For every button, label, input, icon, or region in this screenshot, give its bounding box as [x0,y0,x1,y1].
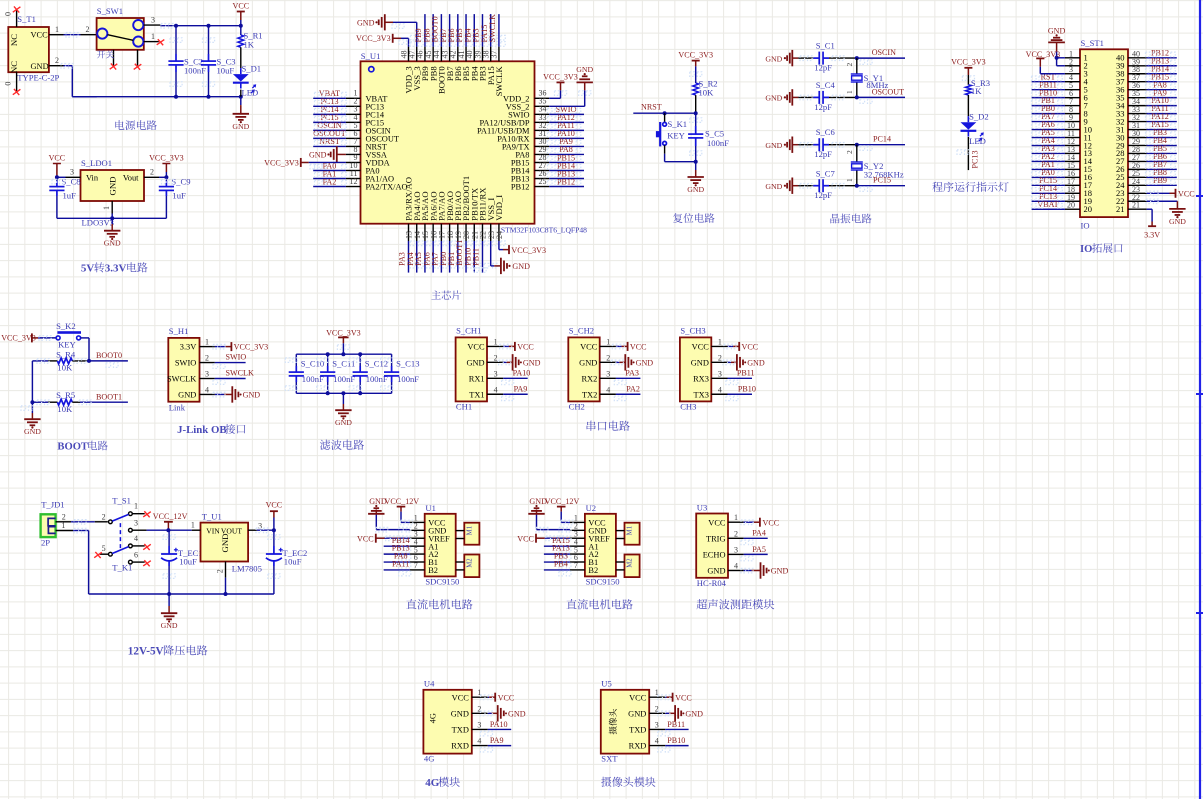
svg-text:GND: GND [765,182,782,191]
svg-text:S_D1: S_D1 [242,64,262,74]
title 主芯片 [431,290,461,299]
svg-text:KEY: KEY [58,340,76,350]
key switch S_K2 KEY [56,321,89,361]
LED S_D2 [961,111,989,146]
svg-text:3: 3 [134,519,138,528]
resistor S_R1 1K [238,26,263,68]
ground GND filter [335,393,352,427]
svg-text:4G: 4G [425,777,440,789]
connector S_H1 J-Link [167,326,215,413]
svg-text:U4: U4 [424,679,435,689]
svg-text:T_JD1: T_JD1 [41,500,64,510]
svg-text:2: 2 [62,512,66,521]
ground GND power circuit [232,97,249,131]
svg-text:PA4: PA4 [752,529,766,538]
regulator T_U1 LM7805 [191,512,262,578]
toggle switch T_K1 lower [100,534,145,573]
title 电源电路 [115,120,157,130]
svg-text:VCC: VCC [692,343,710,352]
svg-text:M2: M2 [467,558,474,568]
svg-text:PB4: PB4 [554,560,568,569]
crystal circuit row OSCIN : capacitor S_C1 12pF [765,50,798,66]
svg-text:PB11: PB11 [667,720,685,729]
svg-text:PA10: PA10 [513,369,531,378]
svg-text:VCC_3V3: VCC_3V3 [234,343,269,352]
svg-text:B2: B2 [588,566,598,575]
svg-text:3: 3 [205,370,209,379]
svg-text:PA11: PA11 [392,560,409,569]
title 直流电机电路 (right) [566,599,632,609]
svg-text:TX1: TX1 [469,390,484,399]
filter top rail [296,353,391,355]
connector S_CH3 [680,326,728,412]
motor connector M1 of U2 [616,523,640,545]
U4 pin2 GND [480,705,525,721]
capacitor S_C11 100nF [317,354,356,393]
title 复位电路 [673,213,715,223]
no-connect X SW1 bottom pins [110,63,118,69]
svg-text:RXD: RXD [451,742,469,751]
svg-text:3.3V: 3.3V [180,343,197,352]
svg-text:12pF: 12pF [814,190,832,200]
junction [326,391,330,395]
svg-text:4: 4 [477,737,481,746]
svg-text:PA10: PA10 [490,720,508,729]
U1 pin23 VSS_I to GND [474,241,530,274]
svg-text:VCC: VCC [357,534,374,543]
power flag VCC ldo [49,154,66,178]
svg-text:VCC: VCC [517,534,534,543]
svg-text:PA3: PA3 [625,369,639,378]
svg-text:GND: GND [104,239,121,248]
svg-text:SWIO: SWIO [226,352,247,361]
svg-text:SWCLK: SWCLK [494,66,504,97]
no-connect X on T1 pin 0 bottom [13,89,21,95]
svg-text:LM7805: LM7805 [232,564,262,574]
svg-text:SWCLK: SWCLK [226,368,254,377]
svg-text:GND: GND [707,567,725,576]
title 超声波测距模块 [697,599,775,609]
title 直流电机电路 (left) [406,599,472,609]
svg-text:PB12: PB12 [511,183,530,192]
svg-text:2: 2 [734,529,738,538]
capacitor S_C9 1uF [159,177,191,219]
svg-text:S_LDO1: S_LDO1 [81,158,112,168]
wire T1 VCC to SW1 [64,25,97,37]
svg-text:1: 1 [718,337,722,346]
svg-text:CH1: CH1 [456,402,472,412]
svg-text:1: 1 [151,32,155,41]
svg-text:37: 37 [490,51,499,59]
ST1 left pins 1-20 [1065,49,1093,214]
svg-text:S_C4: S_C4 [816,80,836,90]
svg-text:M1: M1 [627,526,634,535]
svg-text:GND: GND [161,621,178,630]
svg-text:PC15: PC15 [873,176,891,185]
svg-text:GND: GND [220,533,230,552]
U4 pin1 VCC flag [480,693,514,703]
S_CH3 pin2 GND [723,354,765,370]
ground GND buck [161,594,178,630]
svg-text:GND: GND [636,359,654,368]
svg-text:PA2: PA2 [626,385,640,394]
svg-text:VIN: VIN [206,526,220,535]
svg-text:TYPE-C-2P: TYPE-C-2P [17,73,59,83]
svg-text:GND: GND [529,497,547,506]
svg-text:PB9: PB9 [1153,176,1167,185]
junction [855,95,859,99]
module U3 HC-R04 [696,503,743,589]
svg-text:S_K2: S_K2 [56,321,76,331]
svg-text:GND: GND [451,709,469,718]
svg-text:TXD: TXD [629,726,646,735]
svg-text:GND: GND [108,176,118,195]
svg-text:GND: GND [466,358,484,367]
svg-text:3: 3 [258,522,262,531]
svg-text:VCC: VCC [498,693,515,702]
U1 top net wires pins 46-37 [414,14,499,47]
S_CH1 pin4 PA9 net [502,385,528,401]
svg-text:TRIG: TRIG [706,534,726,543]
svg-text:1: 1 [845,90,854,94]
wire vcc to vin [55,175,66,179]
LED S_D1 [233,64,261,98]
svg-text:VCC: VCC [742,343,759,352]
power flag VCC_3V3 ldo [149,154,184,178]
svg-text:VCC: VCC [467,343,485,352]
svg-text:VCC_3V3: VCC_3V3 [356,34,391,43]
svg-text:1: 1 [494,337,498,346]
svg-text:20: 20 [1084,204,1093,214]
U1 pin3 VREF VCC [357,534,411,544]
svg-text:100nF: 100nF [333,374,355,384]
svg-text:2: 2 [86,25,90,34]
svg-text:BOOT1: BOOT1 [96,392,122,401]
power flag VCC_3V3 reset [678,51,713,84]
svg-text:2: 2 [845,150,854,154]
svg-text:2P: 2P [41,538,50,548]
svg-text:T_S1: T_S1 [112,496,131,506]
svg-text:GND: GND [232,122,249,131]
svg-text:RX3: RX3 [693,374,709,383]
title 串口电路 [587,421,630,431]
svg-text:LED: LED [969,136,986,146]
junction [30,400,34,404]
svg-text:PB10: PB10 [738,385,756,394]
ground GND boot [21,402,41,436]
connector S_CH2 [568,326,616,412]
svg-text:3: 3 [718,369,722,378]
capacitor T_EC1 10uF [161,530,203,594]
svg-text:3: 3 [494,369,498,378]
power flag VCC_3V3 indicator [951,58,986,85]
PC15 net wire [857,176,905,192]
svg-text:PB10: PB10 [667,736,685,745]
capacitor S_C3 10uF [201,26,236,97]
driver U2 SDC9150 [570,503,620,586]
svg-text:S_T1: S_T1 [17,14,36,24]
svg-text:GND: GND [691,358,709,367]
svg-text:10uF: 10uF [179,556,197,566]
no-connect X K1 pin5 [94,552,102,558]
svg-text:3: 3 [734,545,738,554]
bottom GND rail [72,96,241,98]
svg-text:VCC_3V3: VCC_3V3 [1,333,36,342]
resistor S_R5 10K [32,390,128,414]
svg-text:GND: GND [31,62,49,71]
capacitor S_C8 1uF [49,177,80,219]
net highlight marks top [410,35,505,46]
U1 pin6 net PA8 [384,552,411,568]
svg-text:12pF: 12pF [814,102,832,112]
svg-text:4: 4 [734,562,738,571]
svg-text:3: 3 [655,720,659,729]
svg-text:GND: GND [523,359,541,368]
svg-text:NRST: NRST [641,103,662,112]
VCC flag ST1 pin23 [1146,189,1195,199]
crystal S_Y1 8MHz [845,58,889,97]
svg-text:VCC: VCC [452,693,470,702]
svg-text:IO: IO [1081,220,1090,230]
svg-text:VCC_12V: VCC_12V [153,512,188,521]
no-connect X on T1 pin 0 top [13,6,21,12]
net highlight marks bottom [410,241,505,268]
module U5 [601,679,649,764]
svg-text:RXD: RXD [629,742,647,751]
junction [166,528,170,532]
junction [855,56,859,60]
svg-text:VCC_3V3: VCC_3V3 [326,329,361,338]
capacitor S_C5 100nF [688,113,729,162]
filter bottom rail [296,392,391,394]
svg-text:KEY: KEY [667,130,685,140]
PC14 net wire [857,135,905,151]
svg-text:HC-R04: HC-R04 [697,578,727,588]
svg-text:4: 4 [606,385,610,394]
svg-text:GND: GND [579,358,597,367]
svg-text:2: 2 [494,353,498,362]
svg-text:3.3V: 3.3V [105,263,127,275]
svg-text:S_C9: S_C9 [171,177,190,187]
wire JD1 pin2 to switch [71,512,108,524]
svg-text:VBAT: VBAT [1037,200,1058,209]
svg-text:20: 20 [1067,201,1075,210]
junction [167,592,171,596]
connector S_T1 TYPE-C-2P [3,9,63,92]
svg-text:PA9: PA9 [490,736,504,745]
S_CH3 pin4 PB10 net [726,385,756,401]
svg-text:3: 3 [477,720,481,729]
U1 pin36 VDD_2 to VCC_3V3 flag [543,72,578,98]
svg-text:U5: U5 [601,679,612,689]
svg-text:Vout: Vout [123,174,139,183]
U2 pin1 VCC_12V [545,497,580,525]
svg-text:Link: Link [169,403,186,413]
crystal S_Y2 32.768KHz [845,145,904,186]
svg-text:PB12: PB12 [557,177,575,186]
svg-text:IO: IO [1080,244,1092,255]
svg-text:GND: GND [369,497,387,506]
svg-text:NC: NC [9,61,19,73]
wire S1 pin3 to VCC_12V node [147,529,192,531]
svg-text:VDD_I: VDD_I [494,195,504,221]
svg-text:BOOT0: BOOT0 [96,351,122,360]
svg-text:S_C12: S_C12 [365,359,388,369]
U5 vertical label [609,709,617,734]
svg-text:VCC: VCC [675,693,692,702]
U2 pin4 net PA15 [544,536,571,552]
U1 pin8 VSSA ground [309,146,346,162]
svg-text:VCC_12V: VCC_12V [545,497,580,506]
junction [87,359,91,363]
junction [855,143,859,147]
capacitor S_C10 100nF [285,354,324,393]
wire vout [159,175,168,179]
svg-text:GND: GND [687,185,704,194]
power flag VCC [232,2,249,26]
svg-text:PB11: PB11 [737,369,755,378]
3.3V tap ST1 pin21 [1144,209,1160,239]
switch S_SW1 [97,6,161,66]
capacitor T_EC2 10uF [266,530,307,594]
svg-text:VCC: VCC [517,343,534,352]
svg-text:S_C1: S_C1 [816,41,835,51]
svg-text:GND: GND [357,19,375,28]
LDO S_LDO1 [66,158,160,228]
svg-text:2: 2 [718,353,722,362]
svg-text:S_D2: S_D2 [969,111,989,121]
title 晶振电路 [830,214,871,224]
junction [663,111,667,115]
svg-text:24: 24 [495,231,504,239]
U4 pin4 net PA9 [480,736,511,752]
junction [694,160,698,164]
no-connect X S1 pin1 [143,511,151,517]
connector S_CH1 [456,326,504,412]
U1 left net label wires [313,89,346,186]
svg-text:VCC: VCC [49,154,66,163]
svg-text:Vin: Vin [86,174,99,183]
svg-text:S_H1: S_H1 [169,326,189,336]
ground GND top of ST1 [1048,26,1066,65]
U2 pin5 net PA13 [544,544,571,560]
U1 pin1 VCC_12V [385,497,420,525]
svg-text:VCC_3V3: VCC_3V3 [511,246,546,255]
sheet frame border [1199,0,1201,799]
capacitor S_C13 100nF [381,354,420,393]
U3 pin4 GND [741,562,788,578]
resistor S_R4 10K [32,350,89,373]
svg-text:TX2: TX2 [582,390,597,399]
svg-text:S_U1: S_U1 [361,51,381,61]
wire JD1 pin1 down to rail [73,528,274,594]
header S_ST1 IO [1080,38,1128,230]
svg-text:GND: GND [1169,217,1186,226]
svg-text:TXD: TXD [452,726,469,735]
svg-text:GND: GND [335,418,352,427]
U1 top pin48 VDD_3 to VCC_3V3 flag [356,34,411,47]
power flag VCC_3V3 ST1 pin3 [1026,50,1065,74]
svg-text:VCC_3V3: VCC_3V3 [543,72,578,81]
S_CH1 pin2 GND [499,354,541,370]
svg-text:RX1: RX1 [469,374,485,383]
svg-text:TX3: TX3 [694,390,709,399]
svg-text:S_C11: S_C11 [332,359,355,369]
svg-text:1: 1 [205,338,209,347]
S_CH2 pin3 PA3 net [614,369,640,385]
svg-text:1uF: 1uF [172,191,186,201]
svg-text:12: 12 [350,177,358,186]
U1 pin35 VSS_2 to GND [549,65,593,106]
svg-text:PA9: PA9 [514,385,528,394]
svg-text:GND: GND [685,710,703,719]
svg-text:10uF: 10uF [284,556,302,566]
svg-text:25: 25 [539,177,547,186]
svg-text:7: 7 [574,561,578,570]
svg-text:5V: 5V [81,263,95,275]
H1 pin4 GND [213,386,260,402]
U5 pin4 net PB10 [658,736,689,752]
svg-text:6: 6 [134,551,138,560]
svg-text:4G: 4G [428,713,437,723]
svg-text:VCC: VCC [580,343,598,352]
svg-text:S_C7: S_C7 [816,169,836,179]
wire reset bottom [665,161,696,163]
svg-text:2: 2 [845,63,854,67]
svg-text:T_U1: T_U1 [202,512,222,522]
OSCOUT net wire [857,87,905,103]
svg-text:1K: 1K [971,86,982,96]
U2 pin2 GND [528,497,571,532]
svg-text:VCC: VCC [31,30,49,39]
svg-text:PA5: PA5 [752,545,766,554]
svg-text:4: 4 [134,534,138,543]
svg-text:S_C6: S_C6 [816,127,836,137]
svg-text:1: 1 [61,521,65,530]
junction [174,24,178,28]
svg-text:10K: 10K [57,404,73,414]
svg-text:PC13: PC13 [970,151,979,169]
connector T_JD1 2P [41,500,73,548]
svg-text:1: 1 [55,25,59,34]
ST1 left net wires rows 4-20 [1032,72,1065,209]
svg-text:LED: LED [242,87,259,97]
svg-text:S_K1: S_K1 [668,119,688,129]
svg-text:VCC: VCC [708,518,726,527]
svg-text:VCC_3V3: VCC_3V3 [951,58,986,67]
BOOT0 net wire [89,351,128,367]
ground GND ldo [104,214,121,248]
U1 pin2 GND [368,497,411,532]
motor connector M2 of U2 [616,555,640,578]
U1 pin7 net PA11 [384,560,411,576]
svg-text:VCC_12V: VCC_12V [385,497,420,506]
svg-text:GND: GND [576,65,593,74]
S_CH2 pin2 GND [611,354,653,370]
capacitor S_C12 100nF [349,354,388,393]
U4 pin3 net PA10 [480,720,511,736]
svg-text:GND: GND [508,710,526,719]
title 滤波电路 [320,440,364,450]
svg-text:10uF: 10uF [217,66,235,76]
U1 bottom pins 13-24 [404,176,504,241]
svg-text:1: 1 [734,513,738,522]
svg-text:100nF: 100nF [184,66,206,76]
junction [272,528,276,532]
svg-text:4: 4 [655,737,659,746]
svg-text:RX2: RX2 [581,374,597,383]
ground GND reset [687,162,704,194]
